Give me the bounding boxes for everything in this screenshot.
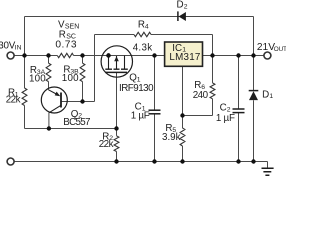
svg-text:C: C — [220, 103, 227, 114]
svg-text:240: 240 — [193, 90, 209, 101]
svg-text:30V: 30V — [0, 41, 16, 52]
svg-text:4: 4 — [145, 23, 149, 30]
svg-text:3.9k: 3.9k — [162, 132, 181, 143]
svg-text:4.3k: 4.3k — [133, 43, 153, 54]
svg-text:BC557: BC557 — [63, 117, 90, 128]
svg-text:1 µF: 1 µF — [131, 110, 150, 121]
svg-text:1: 1 — [269, 93, 273, 100]
svg-text:100: 100 — [62, 73, 79, 84]
svg-text:IRF9130: IRF9130 — [119, 83, 154, 94]
svg-text:SEN: SEN — [65, 23, 79, 30]
svg-text:22k: 22k — [99, 139, 114, 150]
svg-text:1 µF: 1 µF — [216, 113, 235, 124]
svg-text:D: D — [262, 89, 269, 100]
svg-text:21V: 21V — [257, 42, 275, 53]
svg-text:D: D — [177, 0, 184, 11]
svg-text:OUT: OUT — [274, 46, 286, 53]
svg-text:22k: 22k — [6, 94, 21, 105]
svg-text:0.73: 0.73 — [55, 40, 77, 51]
svg-text:LM317: LM317 — [169, 52, 200, 63]
svg-text:2: 2 — [184, 4, 188, 11]
svg-text:IN: IN — [15, 45, 22, 52]
svg-text:100: 100 — [29, 73, 46, 84]
